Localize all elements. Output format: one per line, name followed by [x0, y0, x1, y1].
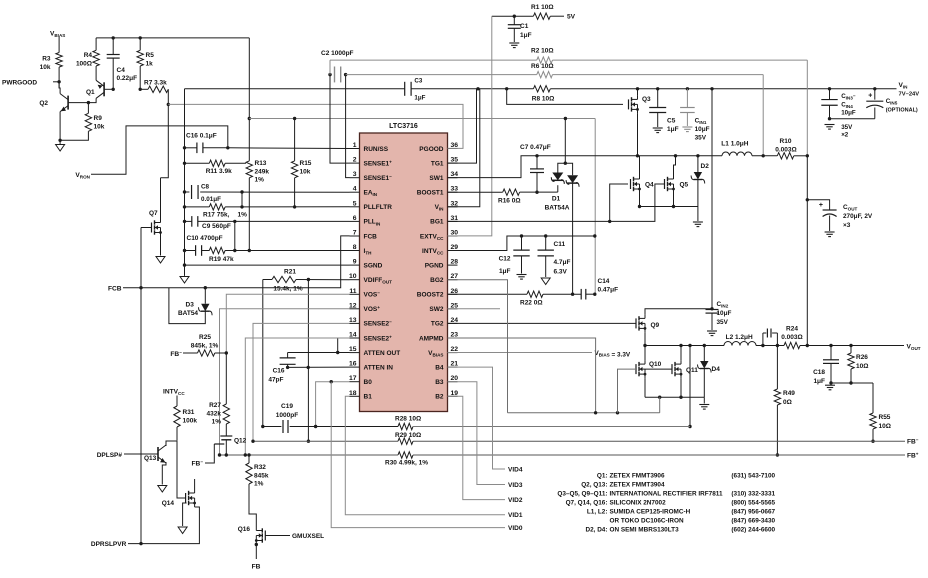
svg-text:BOOST2: BOOST2: [417, 292, 444, 299]
svg-text:R16 0Ω: R16 0Ω: [498, 198, 521, 205]
svg-text:VID3: VID3: [508, 482, 523, 489]
svg-text:R10: R10: [780, 138, 792, 145]
svg-text:Q7, Q14, Q16:: Q7, Q14, Q16:: [566, 500, 608, 507]
svg-text:10μF: 10μF: [717, 310, 732, 317]
svg-text:SENSE2+: SENSE2+: [364, 334, 393, 342]
svg-text:Q10: Q10: [649, 361, 662, 368]
svg-text:R22 0Ω: R22 0Ω: [520, 300, 543, 307]
svg-text:R28 10Ω: R28 10Ω: [395, 416, 421, 423]
svg-text:(631) 543-7100: (631) 543-7100: [731, 472, 775, 479]
svg-text:Q1:: Q1:: [597, 472, 608, 479]
svg-text:100k: 100k: [183, 418, 198, 425]
svg-text:18: 18: [349, 390, 357, 397]
svg-text:29: 29: [451, 244, 459, 251]
svg-text:SW2: SW2: [429, 306, 443, 313]
svg-text:R31: R31: [183, 409, 195, 416]
svg-text:OR TOKO DC106C-IRON: OR TOKO DC106C-IRON: [610, 518, 684, 525]
svg-text:B1: B1: [364, 394, 373, 401]
svg-text:14: 14: [349, 332, 357, 339]
svg-text:C3: C3: [414, 78, 422, 85]
svg-text:15.4k, 1%: 15.4k, 1%: [273, 285, 302, 292]
svg-text:D2, D4:: D2, D4:: [585, 527, 607, 534]
svg-text:Q14: Q14: [162, 500, 175, 507]
svg-text:20: 20: [451, 375, 459, 382]
svg-text:1μF: 1μF: [813, 378, 825, 385]
svg-text:5V: 5V: [567, 14, 576, 21]
svg-text:D1: D1: [552, 196, 561, 203]
svg-text:1000pF: 1000pF: [276, 412, 298, 419]
svg-text:35: 35: [451, 157, 459, 164]
svg-text:B4: B4: [435, 364, 444, 371]
svg-text:9: 9: [353, 259, 357, 266]
svg-text:10k: 10k: [300, 168, 311, 175]
svg-text:ON SEMI MBRS130LT3: ON SEMI MBRS130LT3: [610, 527, 680, 534]
svg-text:FB: FB: [252, 564, 261, 571]
svg-text:PGOOD: PGOOD: [419, 146, 444, 153]
svg-text:Q5: Q5: [680, 182, 689, 189]
svg-text:270μF, 2V: 270μF, 2V: [843, 213, 873, 220]
svg-text:6: 6: [353, 215, 357, 222]
svg-text:PGND: PGND: [425, 262, 444, 269]
svg-text:0.22μF: 0.22μF: [117, 75, 138, 82]
svg-text:2: 2: [353, 157, 357, 164]
svg-text:C4: C4: [117, 67, 126, 74]
svg-text:(847) 669-3430: (847) 669-3430: [731, 518, 775, 525]
svg-text:249k: 249k: [255, 168, 270, 175]
svg-text:R13: R13: [255, 160, 267, 167]
svg-text:19: 19: [451, 390, 459, 397]
svg-text:32: 32: [451, 200, 459, 207]
svg-text:31: 31: [451, 215, 459, 222]
svg-text:R17 75k,: R17 75k,: [203, 212, 230, 219]
svg-text:D2: D2: [701, 163, 710, 170]
svg-text:SW1: SW1: [429, 175, 443, 182]
svg-text:Q16: Q16: [238, 526, 251, 533]
svg-text:C11: C11: [554, 241, 566, 248]
svg-text:R6 10Ω: R6 10Ω: [531, 63, 554, 70]
svg-text:0.01μF: 0.01μF: [201, 196, 221, 203]
svg-text:R11 3.9k: R11 3.9k: [206, 168, 232, 175]
svg-text:7V–24V: 7V–24V: [899, 91, 920, 97]
svg-text:47pF: 47pF: [268, 376, 283, 383]
svg-text:1%: 1%: [254, 481, 264, 488]
svg-text:C9 560pF: C9 560pF: [202, 223, 231, 230]
svg-text:×2: ×2: [841, 132, 849, 139]
svg-text:17: 17: [349, 375, 357, 382]
svg-text:C19: C19: [281, 403, 293, 410]
svg-text:845k, 1%: 845k, 1%: [191, 343, 219, 350]
svg-text:+: +: [819, 202, 823, 209]
svg-text:PWRGOOD: PWRGOOD: [2, 79, 37, 86]
svg-text:432k: 432k: [207, 410, 222, 417]
svg-text:C2 1000pF: C2 1000pF: [321, 50, 354, 57]
svg-text:R4: R4: [84, 52, 93, 59]
svg-text:1: 1: [353, 142, 357, 149]
svg-text:SENSE1−: SENSE1−: [364, 174, 393, 182]
svg-text:ZETEX FMMT3904: ZETEX FMMT3904: [610, 481, 665, 488]
svg-text:ZETEX FMMT3906: ZETEX FMMT3906: [610, 472, 665, 479]
svg-text:28: 28: [451, 259, 459, 266]
svg-text:(847) 956-0667: (847) 956-0667: [731, 509, 775, 516]
svg-text:Q7: Q7: [149, 210, 158, 217]
svg-text:1%: 1%: [212, 419, 222, 426]
svg-text:C5: C5: [667, 118, 676, 125]
svg-text:FCB: FCB: [364, 233, 378, 240]
svg-text:VID0: VID0: [508, 525, 523, 532]
svg-text:Q12: Q12: [234, 438, 247, 445]
svg-text:×3: ×3: [843, 222, 851, 229]
svg-text:4: 4: [353, 186, 357, 193]
svg-text:DPRSLPVR: DPRSLPVR: [91, 541, 127, 548]
svg-text:1%: 1%: [255, 177, 265, 184]
svg-text:L1 1.0μH: L1 1.0μH: [721, 141, 748, 148]
svg-text:Q1: Q1: [86, 89, 95, 96]
svg-text:0.003Ω: 0.003Ω: [781, 334, 802, 341]
svg-text:0.003Ω: 0.003Ω: [775, 147, 796, 154]
svg-text:TG1: TG1: [431, 160, 444, 167]
svg-text:Q9: Q9: [651, 322, 660, 329]
svg-text:R32: R32: [254, 464, 266, 471]
svg-text:10k: 10k: [40, 64, 51, 71]
svg-text:C8: C8: [201, 184, 210, 191]
svg-text:24: 24: [451, 317, 459, 324]
svg-text:Q2: Q2: [39, 100, 48, 107]
svg-text:Q13: Q13: [144, 455, 157, 462]
svg-text:Q2, Q13:: Q2, Q13:: [581, 481, 607, 488]
svg-text:VID2: VID2: [508, 497, 523, 504]
svg-text:21: 21: [451, 361, 459, 368]
svg-text:SILICONIX 2N7002: SILICONIX 2N7002: [610, 500, 667, 507]
svg-text:10Ω: 10Ω: [856, 363, 868, 370]
svg-text:GMUXSEL: GMUXSEL: [292, 533, 324, 540]
svg-text:C10 4700pF: C10 4700pF: [187, 235, 223, 242]
svg-text:Q3–Q5, Q9–Q11:: Q3–Q5, Q9–Q11:: [557, 491, 607, 498]
svg-text:C16: C16: [273, 368, 285, 375]
svg-text:BG2: BG2: [430, 277, 444, 284]
svg-text:35V: 35V: [717, 319, 729, 326]
svg-text:10Ω: 10Ω: [879, 423, 891, 430]
svg-text:845k: 845k: [254, 472, 269, 479]
svg-text:VID4: VID4: [508, 467, 523, 474]
svg-text:33: 33: [451, 186, 459, 193]
svg-text:B2: B2: [435, 394, 444, 401]
svg-text:AMPMD: AMPMD: [419, 335, 444, 342]
svg-text:12: 12: [349, 302, 357, 309]
svg-text:R55: R55: [879, 414, 891, 421]
svg-text:SENSE2−: SENSE2−: [364, 320, 393, 328]
svg-text:R8 10Ω: R8 10Ω: [532, 96, 555, 103]
svg-text:B3: B3: [435, 379, 444, 386]
svg-text:35V: 35V: [695, 135, 707, 142]
svg-text:10μF: 10μF: [695, 126, 710, 133]
svg-text:SUMIDA CEP125-IROMC-H: SUMIDA CEP125-IROMC-H: [610, 509, 691, 516]
svg-text:R19 47k: R19 47k: [209, 256, 234, 263]
svg-text:(OPTIONAL): (OPTIONAL): [886, 107, 918, 113]
svg-text:+: +: [868, 93, 872, 100]
svg-text:11: 11: [349, 288, 356, 295]
svg-text:INTERNATIONAL RECTIFIER IRF781: INTERNATIONAL RECTIFIER IRF7811: [610, 491, 723, 498]
svg-text:10μF: 10μF: [841, 109, 856, 116]
svg-text:R21: R21: [284, 269, 296, 276]
svg-text:Q4: Q4: [645, 182, 654, 189]
svg-text:13: 13: [349, 317, 357, 324]
svg-text:10: 10: [349, 273, 357, 280]
svg-text:ATTEN IN: ATTEN IN: [364, 364, 394, 371]
svg-text:BG1: BG1: [430, 219, 444, 226]
svg-text:0.47μF: 0.47μF: [598, 287, 619, 294]
svg-text:1%: 1%: [238, 212, 248, 219]
svg-text:R7 3.3k: R7 3.3k: [144, 80, 167, 87]
svg-text:C16 0.1μF: C16 0.1μF: [186, 133, 217, 140]
svg-text:(310) 332-3331: (310) 332-3331: [731, 491, 775, 498]
svg-text:BOOST1: BOOST1: [417, 190, 444, 197]
svg-text:1μF: 1μF: [414, 95, 425, 102]
svg-text:D3: D3: [186, 302, 195, 309]
svg-text:PLLFLTR: PLLFLTR: [364, 204, 393, 211]
svg-text:TG2: TG2: [431, 321, 444, 328]
svg-text:27: 27: [451, 273, 459, 280]
svg-text:1μF: 1μF: [667, 126, 679, 133]
svg-text:23: 23: [451, 332, 459, 339]
svg-text:4.7μF: 4.7μF: [554, 259, 571, 266]
svg-text:C1: C1: [520, 23, 529, 30]
svg-text:1μF: 1μF: [499, 268, 511, 275]
svg-text:SENSE1+: SENSE1+: [364, 159, 393, 167]
svg-text:8: 8: [353, 244, 357, 251]
svg-text:Q3: Q3: [642, 96, 651, 103]
svg-text:Q11: Q11: [686, 367, 698, 374]
svg-text:C12: C12: [499, 255, 511, 262]
svg-text:15: 15: [349, 346, 357, 353]
svg-text:SGND: SGND: [364, 262, 383, 269]
svg-text:R9: R9: [94, 115, 103, 122]
svg-text:D4: D4: [712, 366, 721, 373]
svg-text:R30 4.99k, 1%: R30 4.99k, 1%: [385, 460, 428, 467]
svg-text:5: 5: [353, 200, 357, 207]
svg-text:R3: R3: [42, 56, 51, 63]
svg-text:BAT54A: BAT54A: [545, 204, 570, 211]
svg-text:16: 16: [349, 361, 357, 368]
svg-text:R27: R27: [209, 402, 221, 409]
svg-text:L2 1.2μH: L2 1.2μH: [726, 334, 753, 341]
svg-text:10k: 10k: [94, 124, 105, 131]
svg-text:B0: B0: [364, 379, 373, 386]
svg-text:LTC3716: LTC3716: [389, 123, 418, 130]
svg-text:7: 7: [353, 230, 357, 237]
svg-text:R15: R15: [300, 160, 312, 167]
svg-text:R49: R49: [783, 390, 795, 397]
svg-text:BAT54: BAT54: [178, 310, 198, 317]
svg-text:35V: 35V: [841, 124, 853, 131]
svg-text:25: 25: [451, 302, 459, 309]
svg-text:R24: R24: [786, 326, 798, 333]
svg-text:R29 10Ω: R29 10Ω: [395, 432, 421, 439]
svg-text:FCB: FCB: [108, 285, 122, 292]
svg-text:3: 3: [353, 171, 357, 178]
svg-text:1μF: 1μF: [520, 32, 532, 39]
svg-text:L1, L2:: L1, L2:: [587, 509, 608, 516]
svg-text:R1 10Ω: R1 10Ω: [531, 4, 554, 11]
svg-text:0Ω: 0Ω: [783, 399, 792, 406]
svg-text:100Ω: 100Ω: [76, 61, 92, 68]
svg-text:6.3V: 6.3V: [554, 268, 568, 275]
svg-text:C18: C18: [813, 369, 825, 376]
svg-text:R5: R5: [146, 52, 155, 59]
svg-text:R25: R25: [199, 334, 211, 341]
svg-text:(800) 554-5565: (800) 554-5565: [731, 500, 775, 507]
svg-text:DPLSP#: DPLSP#: [97, 452, 123, 459]
svg-text:R26: R26: [856, 354, 868, 361]
svg-text:1k: 1k: [146, 61, 154, 68]
svg-text:(602) 244-6600: (602) 244-6600: [731, 527, 775, 534]
svg-text:ATTEN OUT: ATTEN OUT: [364, 350, 401, 357]
svg-text:C7 0.47μF: C7 0.47μF: [520, 144, 551, 151]
svg-text:C14: C14: [598, 278, 610, 285]
svg-text:VID1: VID1: [508, 512, 523, 519]
svg-text:RUN/SS: RUN/SS: [364, 146, 389, 153]
svg-text:R2 10Ω: R2 10Ω: [531, 48, 554, 55]
